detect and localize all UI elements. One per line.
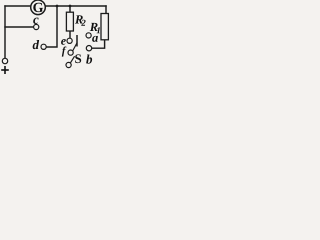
label S xyxy=(75,54,81,63)
switch S blade lower xyxy=(70,56,74,63)
label e xyxy=(61,39,66,45)
wire right drop to R1 xyxy=(105,6,107,14)
wire left rail xyxy=(4,6,6,58)
switch S blade upper xyxy=(73,43,78,51)
terminal a xyxy=(86,33,91,38)
wire stub to node c xyxy=(5,26,33,28)
resistor R2 xyxy=(66,12,73,31)
label b xyxy=(86,54,92,63)
terminal f xyxy=(68,50,73,55)
wire R1 bottom lead to node b xyxy=(92,40,105,48)
resistor R1 xyxy=(101,14,108,40)
wire mid drop to node d xyxy=(46,6,57,47)
label G xyxy=(33,3,43,12)
wire R2 bottom lead xyxy=(69,31,71,38)
terminal e xyxy=(67,38,72,43)
label c xyxy=(33,18,38,24)
label R1 sub1 xyxy=(97,27,100,33)
label R2 sub2 xyxy=(81,20,85,26)
label f xyxy=(62,47,67,57)
junction dot at top rail x70 xyxy=(69,5,72,8)
terminal d xyxy=(41,44,46,49)
wire R2 top lead xyxy=(69,6,71,12)
label d xyxy=(33,40,40,49)
switch S fixed jaw bar xyxy=(76,35,78,47)
battery positive terminal xyxy=(2,58,7,63)
terminal c xyxy=(34,24,39,29)
label R2 R xyxy=(75,15,83,23)
switch S pivot terminal xyxy=(66,62,71,67)
terminal b xyxy=(86,46,91,51)
label R1 R xyxy=(90,23,98,31)
galvanometer G body xyxy=(31,0,46,15)
label plus polarity xyxy=(1,66,9,74)
wire top rail left segment xyxy=(5,5,31,7)
junction dot at top rail x57 xyxy=(56,5,59,8)
wire top rail right segment xyxy=(45,5,106,7)
label a xyxy=(92,36,98,42)
